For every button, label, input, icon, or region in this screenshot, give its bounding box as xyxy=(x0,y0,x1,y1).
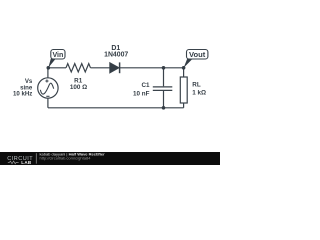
resistor RL body xyxy=(180,77,187,103)
wire: R1 to diode xyxy=(91,67,111,69)
svg-text:10 nF: 10 nF xyxy=(133,91,150,98)
svg-text:RL: RL xyxy=(192,82,201,89)
wire: node to RL top xyxy=(183,68,185,77)
node A xyxy=(47,66,51,70)
source Vs minus xyxy=(46,95,49,97)
svg-text:http://circuitlab.com/c/ghta84: http://circuitlab.com/c/ghta84 xyxy=(40,155,92,160)
svg-text:Vout: Vout xyxy=(189,50,206,59)
capacitor C1 stem top xyxy=(163,68,165,87)
svg-text:1N4007: 1N4007 xyxy=(104,51,128,58)
source Vs circle xyxy=(38,78,58,98)
capacitor C1 stem bottom xyxy=(163,91,165,108)
svg-text:10 kHz: 10 kHz xyxy=(13,90,32,97)
wire: RL bottom xyxy=(183,103,185,108)
footer separator xyxy=(35,153,37,163)
label RL xyxy=(192,82,206,97)
source Vs stem top xyxy=(47,68,49,78)
svg-text:Vin: Vin xyxy=(52,51,63,59)
label C1 xyxy=(133,82,150,97)
svg-text:LAB: LAB xyxy=(21,160,32,165)
wire: bottom rail xyxy=(48,107,184,109)
source Vs plus xyxy=(46,80,47,83)
flag Vin tail xyxy=(48,58,56,67)
wire: node A to R1 xyxy=(48,67,66,69)
footer bar xyxy=(0,152,220,165)
node C1 bottom xyxy=(162,106,166,110)
diode D1 xyxy=(110,63,120,74)
svg-text:C1: C1 xyxy=(141,82,150,89)
svg-text:1 kΩ: 1 kΩ xyxy=(192,89,206,96)
node Vout/RL xyxy=(182,66,186,70)
flag Vout tail xyxy=(184,59,193,68)
resistor R1 xyxy=(66,64,91,72)
flag Vout box xyxy=(187,50,208,60)
label R1 xyxy=(70,78,87,92)
capacitor C1 plates xyxy=(153,86,173,88)
logo zigzag xyxy=(8,161,19,164)
flag Vin box xyxy=(51,50,65,60)
node C1 top xyxy=(162,66,166,70)
svg-text:100 Ω: 100 Ω xyxy=(70,84,87,91)
label Vs xyxy=(13,78,33,97)
source Vs stem bottom xyxy=(47,98,49,108)
label D1 xyxy=(104,45,128,58)
wire: diode to node RL xyxy=(119,67,183,69)
source Vs sine xyxy=(40,83,53,94)
